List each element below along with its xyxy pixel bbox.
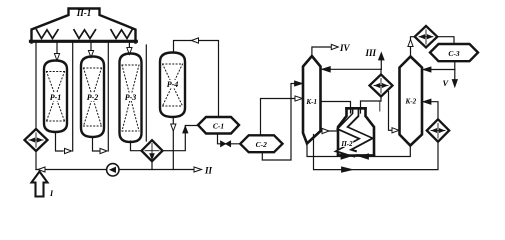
wire: R4 bottom downleg [172,117,174,170]
svg-text:Р-4: Р-4 [167,80,179,89]
arrowhead into R2 [88,51,93,58]
wire: branch up into C1 left [173,126,198,151]
wire: C2 top to K1 feed [261,99,301,136]
arrowhead solid into K2 right lower [423,99,431,104]
wire: K2 top to T5 [411,37,415,56]
arrowhead II [194,167,202,172]
svg-text:К-2: К-2 [405,97,417,105]
valve bowtie [221,141,231,147]
arrowhead into P2 left [322,128,329,133]
label Р-4 [164,80,181,89]
exchanger T4 diamond (bottom right) [427,119,449,141]
wire: C1 bottom to valve to C2 [218,134,241,144]
label Р-2 [84,93,101,102]
main bottom line to II [36,169,194,171]
column K1 (К-1) [303,56,321,144]
wire: C2 bottom U to K1 upper [262,84,301,161]
arrowhead into R1 [54,54,59,61]
wire: C3 bottom to V and K2 return [454,61,456,83]
wire: K1 right upper return with solid arrow [322,68,382,70]
separator C3 (С-3) [430,44,478,61]
arrowhead into K1 feed [295,96,303,101]
arrowhead down on R4 line [171,124,176,131]
svg-text:V: V [443,78,450,88]
wire: riser from exchanger T2 to furnace [145,45,147,141]
furnace P2 (П-2) outline [338,108,374,155]
reactor R2 internals [84,68,102,126]
wire: K1 bottom to P2 bottom-left [307,144,341,157]
wire: T3 edge drop into K2 [389,92,397,131]
wire: furnace to R1 top [56,43,58,60]
wire: R2 bottom outlet [93,137,100,151]
svg-text:Р-3: Р-3 [125,93,137,102]
arrowhead into riser [38,167,45,172]
arrowhead solid into K1 upper [295,81,303,86]
separator C1 (С-1) [198,117,239,134]
arrowhead R2 outlet [100,148,107,153]
wire: R1 bottom outlet [56,132,64,151]
T1 internal arrows [29,139,43,141]
wire: riser R2 bottom to furnace [107,43,109,152]
wire: T5 to C3 top [437,37,454,44]
svg-text:П-1: П-1 [76,8,92,18]
arrowhead up into C1 [183,126,188,133]
reactor R4 (Р-4) [160,53,185,118]
wire: T3 top stub [380,69,382,74]
svg-text:С-1: С-1 [213,121,224,130]
arrowhead R1 outlet [65,148,72,153]
wire: K1 bottom loop to T4 exchanger [314,135,439,170]
wire: R4 top to C1 riser [174,41,219,118]
reactor R2 (Р-2) [81,57,104,138]
furnace P1 coil 1 [37,30,59,39]
svg-text:IV: IV [339,43,351,53]
T2 internal arrows [145,150,159,152]
arrowhead solid into P2 bottom-right [360,154,369,159]
reactor R3 internals [122,65,139,131]
wire: K2 bottom to P2 bottom-right [368,146,410,157]
column K2 (К-2) [400,57,423,146]
svg-text:Р-2: Р-2 [87,93,99,102]
arrowhead into K2 left [392,128,399,133]
wire: furnace to R2 top [90,43,92,57]
wire: K1 side outlet to P2 coil pipe1 [321,102,351,114]
furnace P1 (П-1) outline [32,9,136,43]
svg-text:III: III [364,48,376,58]
pump on line [107,164,119,176]
arrowhead V down [452,80,457,88]
svg-text:К-1: К-1 [305,98,317,106]
stream III riser [380,56,382,69]
wire: T4 top to K2 lower right inlet [424,102,438,120]
exchanger T3 diamond (middle) [370,75,393,97]
arrowhead into R3 [127,48,132,55]
furnace P1 coil 2 [74,30,96,39]
furnace P1 bottom edge [31,40,137,43]
exchanger T2 diamond [142,140,163,161]
wire: T2 right to R4 downleg [163,150,174,152]
label Р-3 [122,93,139,102]
reactor R1 internals [47,72,65,122]
wire: K1 lower side to P2 wall [321,130,338,132]
wire: feed riser from exchanger T1 to furnace [35,43,37,130]
wire: R3 bottom to exchanger T2 [131,141,142,151]
arrowhead IV [331,44,338,49]
stream IV line [312,47,331,56]
stream I block arrow [32,172,48,197]
svg-text:Р-1: Р-1 [50,93,62,102]
label Р-1 [47,93,64,102]
wire: riser R1 bottom to furnace [72,43,74,152]
wire: T2 bottom to II line [151,161,153,169]
exchanger T1 diamond [25,129,48,151]
svg-text:I: I [49,189,54,198]
arrowhead up on K2 top line [408,40,413,47]
svg-text:С-3: С-3 [448,49,460,58]
wire: furnace to R3 top [128,43,130,54]
arrowhead solid into P2 bottom-left [341,154,350,159]
furnace P1 coil 3 [111,30,132,39]
reactor R1 (Р-1) [44,61,67,133]
exchanger T5 diamond (top right) [415,26,438,47]
wire: stub into P2 shoulder [379,101,381,111]
reactor R4 internals [163,64,183,106]
svg-text:II: II [204,166,213,176]
separator C2 (С-2) [240,135,282,152]
arrowhead solid right on loop [342,167,353,172]
reactor R3 (Р-3) [120,54,142,143]
arrowhead solid into K2 right [423,67,431,72]
wire: pipe2 from T3 into neck [361,97,382,114]
svg-text:С-2: С-2 [256,140,268,149]
wire: T1 to I junction [35,151,37,170]
furnace P2 coil band [343,109,367,155]
svg-text:П-2: П-2 [340,140,353,148]
arrowhead into R4 line [192,38,199,43]
